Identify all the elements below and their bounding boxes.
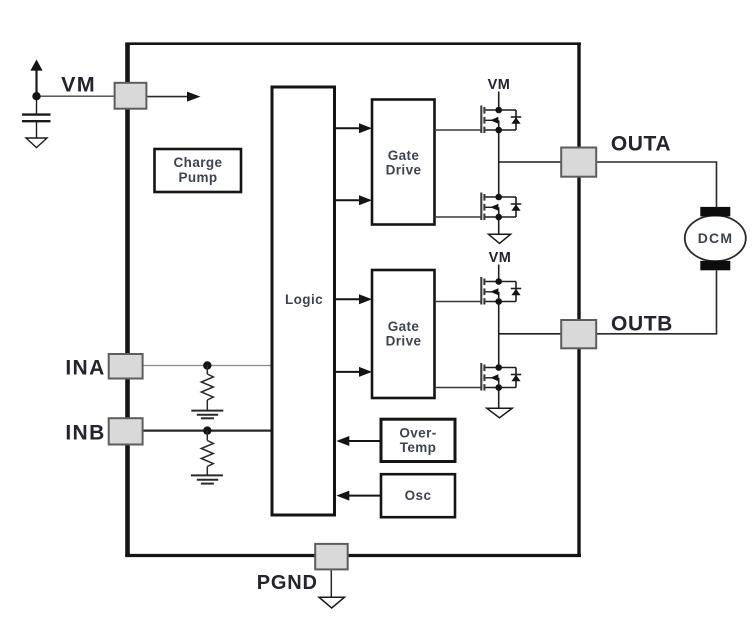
svg-text:DCM: DCM [698, 230, 733, 246]
svg-text:VM: VM [61, 72, 96, 96]
svg-text:OUTA: OUTA [611, 133, 671, 156]
svg-text:Drive: Drive [386, 163, 422, 178]
svg-text:Pump: Pump [178, 170, 217, 185]
svg-text:Gate: Gate [388, 148, 420, 163]
svg-text:VM: VM [488, 77, 511, 93]
svg-text:Charge: Charge [174, 155, 223, 170]
svg-text:OUTB: OUTB [611, 313, 673, 336]
svg-text:Logic: Logic [285, 292, 323, 307]
svg-text:Temp: Temp [400, 440, 437, 455]
svg-text:Osc: Osc [405, 488, 432, 503]
svg-text:INB: INB [65, 422, 105, 445]
svg-text:Drive: Drive [386, 334, 422, 349]
svg-text:VM: VM [489, 250, 512, 266]
svg-text:Over-: Over- [399, 426, 436, 441]
svg-text:INA: INA [65, 356, 105, 379]
svg-text:Gate: Gate [388, 319, 420, 334]
svg-text:PGND: PGND [257, 572, 318, 594]
